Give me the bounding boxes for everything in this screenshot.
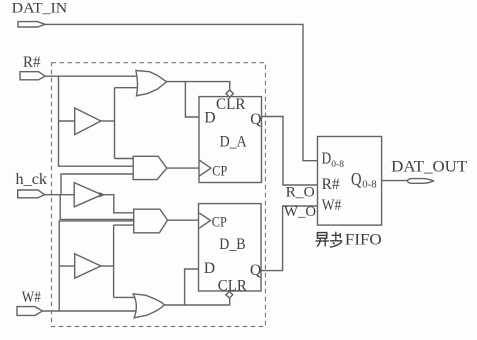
svg-text:0-8: 0-8 (362, 179, 377, 191)
svg-text:D: D (204, 110, 215, 127)
svg-text:R#: R# (23, 54, 41, 71)
svg-text:h_ck: h_ck (16, 171, 48, 188)
svg-text:D_B: D_B (219, 236, 245, 253)
svg-text:FIFO: FIFO (345, 232, 382, 249)
svg-text:CP: CP (212, 164, 227, 180)
svg-text:D: D (204, 260, 215, 277)
svg-text:DAT_OUT: DAT_OUT (391, 159, 467, 176)
svg-text:0-8: 0-8 (331, 160, 344, 170)
svg-text:W#: W# (322, 197, 342, 214)
svg-text:CLR: CLR (216, 96, 246, 113)
svg-text:W_O: W_O (284, 204, 316, 220)
svg-text:DAT_IN: DAT_IN (12, 1, 68, 17)
svg-text:W#: W# (22, 289, 41, 306)
svg-text:D_A: D_A (220, 134, 248, 151)
svg-text:CP: CP (212, 214, 227, 230)
svg-text:Q: Q (250, 262, 261, 279)
svg-text:D: D (322, 148, 332, 167)
svg-text:Q: Q (351, 169, 362, 189)
svg-text:Q: Q (250, 111, 261, 128)
svg-text:R_O: R_O (286, 184, 315, 200)
svg-text:CLR: CLR (218, 278, 248, 295)
svg-text:R#: R# (322, 176, 340, 193)
